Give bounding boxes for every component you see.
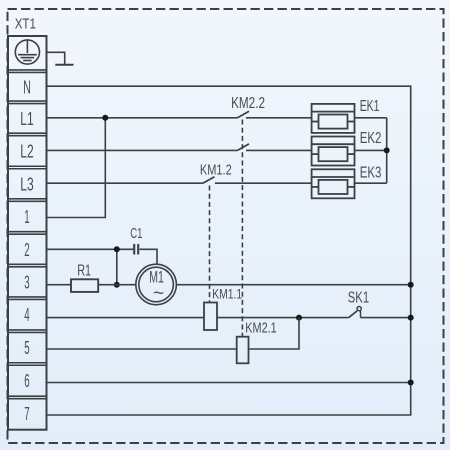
mechanical link KM1.2 to KM1.1 (dashed): [209, 186, 211, 303]
wire junction column rows 2-3: [116, 249, 118, 284]
svg-text:R1: R1: [77, 263, 91, 280]
wire motor right to N bus: [176, 284, 410, 286]
svg-text:2: 2: [24, 240, 29, 260]
wire KM1.1 to SK1: [217, 317, 349, 319]
heater EK2: [312, 137, 355, 166]
heater EK3: [312, 169, 355, 198]
wire N row to right bus: [47, 86, 411, 415]
wire L2 row left: [47, 149, 238, 151]
contact KM1.2 blade: [203, 177, 215, 184]
wire terminal 2 to capacitor: [47, 248, 134, 250]
contact KM2.2 pole 1 blade: [238, 111, 250, 118]
capacitor C1: [134, 244, 138, 255]
svg-text:N: N: [23, 77, 31, 97]
svg-text:KM2.1: KM2.1: [245, 321, 276, 337]
svg-text:KM1.2: KM1.2: [200, 162, 232, 179]
coil KM2.1: [237, 337, 249, 364]
node star point EK2: [384, 147, 390, 153]
wire KM2.1 right up to row4: [249, 318, 300, 349]
svg-text:1: 1: [24, 207, 29, 227]
wire L1 row left: [47, 117, 238, 119]
coil KM1.1: [204, 303, 217, 331]
terminal block XT1 outline: [8, 36, 47, 430]
svg-text:6: 6: [24, 371, 29, 391]
ground (chassis bar): [55, 64, 73, 66]
node row3 junction: [114, 282, 120, 288]
wire L3 row left: [47, 182, 203, 184]
node N bus row3: [408, 282, 414, 288]
mechanical link KM2.2 to KM2.1 (dashed): [241, 120, 243, 337]
switch SK1: [349, 311, 358, 318]
svg-text:4: 4: [24, 305, 29, 325]
svg-text:SK1: SK1: [348, 290, 369, 307]
wire earth terminal to chassis ground: [47, 52, 65, 64]
svg-text:L3: L3: [20, 174, 33, 194]
wire EK1 right to star point: [355, 117, 387, 119]
svg-text:L2: L2: [20, 142, 33, 162]
node N bus row4: [408, 315, 414, 321]
svg-text:7: 7: [24, 404, 29, 424]
svg-text:C1: C1: [130, 225, 142, 242]
wire L1 row right to EK1: [246, 117, 312, 119]
svg-text:KM1.1: KM1.1: [212, 286, 242, 302]
svg-text:3: 3: [24, 272, 29, 292]
terminal cell dividers (double lines): [8, 70, 47, 399]
wire capacitor to motor top: [139, 249, 157, 264]
svg-text:EK2: EK2: [360, 130, 382, 147]
heater EK1: [312, 104, 355, 133]
node row4 junction: [296, 315, 302, 321]
wire terminal 1 up to L1: [47, 118, 106, 218]
svg-text:EK1: EK1: [360, 98, 380, 115]
svg-text:5: 5: [24, 338, 29, 358]
node junction L1/terminal1: [102, 115, 108, 121]
svg-text:~: ~: [153, 284, 164, 305]
wire star point vertical: [386, 118, 388, 183]
protective earth terminal symbol: [15, 40, 39, 64]
svg-text:L1: L1: [20, 109, 33, 129]
wire L3 row right to EK3: [215, 182, 312, 184]
motor M1: [136, 264, 177, 305]
wire terminal 4 to KM1.1: [47, 317, 205, 319]
svg-text:EK3: EK3: [360, 164, 382, 181]
node N bus row6: [408, 380, 414, 386]
node row2 junction: [114, 246, 120, 252]
resistor R1: [71, 279, 98, 292]
svg-text:KM2.2: KM2.2: [231, 95, 265, 112]
wire terminal 5 to KM2.1: [47, 348, 237, 350]
svg-text:XT1: XT1: [15, 17, 36, 33]
wire terminal 3 to R1 and motor: [47, 284, 136, 286]
wire EK2 right to star point: [355, 149, 387, 151]
wire EK3 right to star point: [355, 182, 387, 184]
wire terminal 6 to N bus: [47, 382, 411, 384]
wire L2 row right to EK2: [246, 149, 312, 151]
contact KM2.2 pole 2 blade: [238, 144, 250, 151]
wire SK1 right to N bus: [361, 317, 411, 319]
